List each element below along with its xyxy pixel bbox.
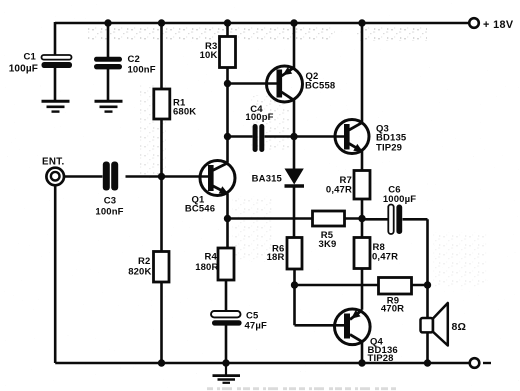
svg-text:TIP28: TIP28: [368, 353, 394, 364]
svg-text:100µF: 100µF: [9, 64, 38, 75]
svg-text:R2: R2: [138, 256, 150, 267]
svg-text:ENT.: ENT.: [42, 157, 65, 168]
svg-text:180R: 180R: [195, 262, 218, 273]
svg-text:47µF: 47µF: [245, 321, 267, 332]
svg-text:+ 18V: + 18V: [483, 19, 514, 31]
svg-text:100nF: 100nF: [95, 207, 123, 218]
svg-text:820K: 820K: [128, 267, 151, 278]
svg-text:100nF: 100nF: [128, 65, 156, 76]
svg-text:BA315: BA315: [252, 174, 283, 185]
svg-text:C2: C2: [128, 54, 140, 65]
svg-text:18R: 18R: [267, 252, 285, 263]
svg-text:BC546: BC546: [185, 204, 215, 215]
svg-text:10K: 10K: [200, 50, 218, 61]
svg-text:100pF: 100pF: [245, 112, 273, 123]
svg-text:3K9: 3K9: [319, 239, 337, 250]
svg-text:R4: R4: [205, 252, 218, 263]
svg-text:BC558: BC558: [305, 81, 335, 92]
svg-text:C1: C1: [24, 52, 37, 63]
svg-text:1000µF: 1000µF: [383, 194, 416, 205]
svg-text:0,47R: 0,47R: [326, 185, 352, 196]
svg-text:TIP29: TIP29: [376, 143, 402, 154]
svg-text:C3: C3: [104, 196, 116, 207]
svg-text:470R: 470R: [381, 304, 404, 315]
svg-text:680K: 680K: [173, 107, 196, 118]
svg-text:0,47R: 0,47R: [372, 252, 398, 263]
svg-text:8Ω: 8Ω: [452, 321, 467, 333]
